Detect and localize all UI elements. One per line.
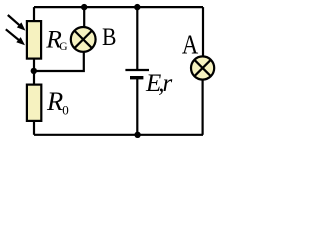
svg-text:R: R: [46, 86, 63, 116]
svg-text:B: B: [102, 23, 116, 51]
svg-text:A: A: [182, 31, 198, 60]
svg-text:G: G: [59, 41, 67, 53]
svg-text:r: r: [163, 70, 173, 97]
svg-text:0: 0: [62, 103, 69, 118]
